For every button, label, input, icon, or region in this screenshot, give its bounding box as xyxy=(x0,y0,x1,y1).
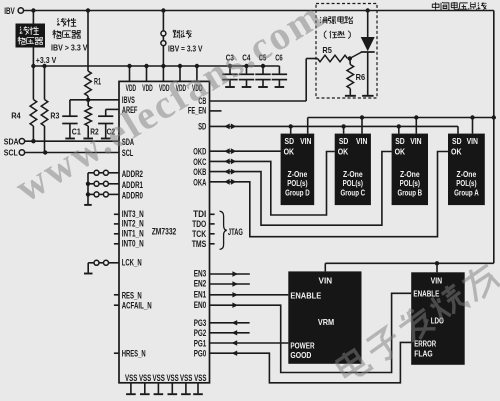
resistor R4 xyxy=(11,66,37,141)
svg-text:OK: OK xyxy=(451,147,462,156)
label TDI xyxy=(193,209,206,219)
label INT3_N xyxy=(122,209,144,219)
label EN0 xyxy=(194,300,207,310)
terminal SDA xyxy=(4,136,25,146)
label ACFAIL_N xyxy=(122,301,152,311)
pin INT1_N stub xyxy=(114,233,119,235)
svg-text:TCK: TCK xyxy=(192,229,207,239)
POL module Z-One Group A xyxy=(448,134,485,206)
label IBV = 3.3 V xyxy=(168,44,203,54)
wire VIN stub group B xyxy=(415,118,417,134)
svg-text:PG3: PG3 xyxy=(194,318,207,328)
svg-text:VIN: VIN xyxy=(356,137,368,146)
svg-text:HRES_N: HRES_N xyxy=(122,349,146,359)
ground (C5) xyxy=(258,86,268,88)
wire IBV bus to linear regulator xyxy=(32,11,34,24)
wire SD stub group C xyxy=(343,126,345,133)
wire SD stub group B xyxy=(398,126,400,133)
capacitor C5 xyxy=(255,52,270,86)
node SD/group C xyxy=(341,124,345,128)
labels VDD x5 xyxy=(126,82,203,93)
node LDO VIN tap xyxy=(435,261,439,265)
node VIN rail / group C xyxy=(360,115,364,119)
JTAG brace xyxy=(220,211,227,249)
jumper ADDR0 xyxy=(88,192,119,197)
label （任选） xyxy=(324,31,350,39)
label OKC xyxy=(193,157,206,167)
svg-text:VIN: VIN xyxy=(300,137,312,146)
label ADDR2 xyxy=(122,169,143,179)
node rail/cap 230 xyxy=(228,64,232,68)
wire PG1 to VRM POWER GOOD xyxy=(210,340,289,345)
node rail/R3 xyxy=(42,64,46,68)
svg-text:VDD: VDD xyxy=(126,82,137,93)
pin INT0_N stub xyxy=(114,243,119,245)
wire PG3 xyxy=(210,320,250,325)
svg-text:EN1: EN1 xyxy=(194,289,207,299)
node VIN rail / group B xyxy=(414,115,418,119)
label FE_EN xyxy=(188,106,206,116)
wire SDA xyxy=(25,140,119,142)
svg-text:R3: R3 xyxy=(50,111,59,121)
pin HRES_N stub xyxy=(114,352,119,354)
svg-text:TDI: TDI xyxy=(193,209,206,219)
jumper ADDR1 xyxy=(88,181,119,186)
node top bus / SCR anode tap xyxy=(366,8,370,12)
pin TCK stub xyxy=(210,233,215,235)
svg-text:IBV = 3.3 V: IBV = 3.3 V xyxy=(168,44,203,54)
svg-text:SD: SD xyxy=(285,137,295,146)
svg-text:ADDR2: ADDR2 xyxy=(122,169,143,179)
watermark www.elecfans.com xyxy=(7,0,330,211)
wire SCL xyxy=(25,152,119,154)
label IBV > 3.3 V xyxy=(51,43,88,53)
bidirectional arrows OKC xyxy=(224,159,236,165)
ground (C3) xyxy=(225,86,235,88)
svg-text:OK: OK xyxy=(395,147,406,156)
svg-text:EN0: EN0 xyxy=(194,300,207,310)
svg-text:Z-One: Z-One xyxy=(457,170,477,179)
node SDA/R4 xyxy=(31,139,35,143)
svg-text:SD: SD xyxy=(339,137,349,146)
wire EN2 xyxy=(210,281,250,286)
wire linear regulator to +3.3V rail xyxy=(32,48,34,67)
wire VIN stub group A xyxy=(472,118,474,134)
svg-text:PG1: PG1 xyxy=(194,339,207,349)
node SCL/R3 xyxy=(43,150,47,154)
wire +3.3V rail xyxy=(33,65,279,67)
node SD/group D xyxy=(289,124,293,128)
svg-text:Group B: Group B xyxy=(398,189,423,198)
label PG3 xyxy=(194,318,207,328)
svg-text:ENABLE: ENABLE xyxy=(413,289,440,298)
label ADDR0 xyxy=(122,191,143,201)
svg-text:R6: R6 xyxy=(356,72,366,82)
label AREF xyxy=(122,105,138,115)
wire EN0 to LDO ENABLE xyxy=(210,293,412,372)
capacitor C3 xyxy=(222,52,237,86)
resistor R2 xyxy=(85,100,99,138)
wire VIN rail (POL groups) xyxy=(308,117,494,119)
svg-text:R1: R1 xyxy=(94,76,101,86)
svg-text:SD: SD xyxy=(198,121,206,131)
svg-text:VSS: VSS xyxy=(194,372,206,383)
svg-text:R4: R4 xyxy=(11,111,21,121)
svg-text:POL(s): POL(s) xyxy=(400,179,421,188)
svg-text:VIN: VIN xyxy=(467,137,479,146)
label PG1 xyxy=(194,339,207,349)
ground (LCK_N) xyxy=(84,273,93,275)
resistor R5 xyxy=(318,45,348,62)
labels VSS x6 xyxy=(125,372,206,383)
label INT2_N xyxy=(122,219,144,229)
node SD/group B xyxy=(397,124,401,128)
svg-text:OKD: OKD xyxy=(193,147,206,157)
svg-text:SD: SD xyxy=(395,137,405,146)
node rail/cap 263 xyxy=(261,64,265,68)
node top bus / linear regulator tap xyxy=(31,8,35,12)
svg-text:IBV: IBV xyxy=(4,6,15,16)
wire LDO VIN stub xyxy=(436,263,438,272)
wire PG2 xyxy=(210,330,250,335)
pin TDO stub xyxy=(210,223,215,225)
pin INT3_N stub xyxy=(114,213,119,215)
svg-text:VSS: VSS xyxy=(180,372,192,383)
capacitor C4 xyxy=(239,52,254,86)
wire AREF (C2 to IC pin) xyxy=(106,108,119,110)
pin VSS1 ground xyxy=(126,383,136,394)
label ZM7332 xyxy=(152,226,177,237)
wire VIN stub group D xyxy=(307,118,309,134)
jumper 跳线 (IBV = 3.3V) xyxy=(161,11,166,67)
pin VDD4 stub xyxy=(178,64,182,82)
wire OKD xyxy=(210,150,281,152)
pin VDD1 stub xyxy=(127,64,131,82)
label TDO xyxy=(192,219,206,229)
label TCK xyxy=(192,229,207,239)
svg-text:Group A: Group A xyxy=(454,189,479,198)
label SDA (pin) xyxy=(122,137,134,147)
svg-text:IBV > 3.3 V: IBV > 3.3 V xyxy=(51,43,88,53)
label SCL (pin) xyxy=(122,148,134,158)
label 消弧电路 xyxy=(320,16,353,24)
svg-text:ACFAIL_N: ACFAIL_N xyxy=(122,301,152,311)
wire PG0 to LDO ERROR FLAG xyxy=(210,342,412,382)
wire CB to arc-suppressor R5 xyxy=(210,59,318,102)
terminal IBV xyxy=(4,6,23,16)
svg-text:POWER: POWER xyxy=(290,341,314,350)
watermark 电子发烧友 xyxy=(334,260,500,382)
POL module Z-One Group D xyxy=(281,134,315,206)
label EN1 xyxy=(194,289,207,299)
svg-text:FLAG: FLAG xyxy=(414,349,433,358)
svg-text:PG0: PG0 xyxy=(194,349,207,359)
svg-text:SCL: SCL xyxy=(4,148,18,158)
node top bus / R1 tap xyxy=(86,8,90,12)
label PG0 xyxy=(194,349,207,359)
label IBVS xyxy=(122,95,135,105)
pin FE_EN stub xyxy=(210,110,222,112)
svg-text:JTAG: JTAG xyxy=(228,227,243,238)
svg-text:VRM: VRM xyxy=(318,318,335,327)
node R5/R6/gate xyxy=(348,56,352,60)
pin TMS stub xyxy=(210,243,215,245)
wire EN1 to VRM ENABLE xyxy=(210,292,289,297)
svg-text:Z-One: Z-One xyxy=(343,170,363,179)
svg-text:VIN: VIN xyxy=(410,137,422,146)
label LCK_N xyxy=(122,257,142,267)
svg-text:TMS: TMS xyxy=(192,239,207,249)
svg-text:PG2: PG2 xyxy=(194,328,207,338)
wire EN3 xyxy=(210,271,250,276)
pin VDD2 stub xyxy=(144,64,148,82)
svg-text:VIN: VIN xyxy=(431,276,443,285)
label CB xyxy=(198,96,206,106)
node VIN rail / group A xyxy=(470,115,474,119)
wire IBVS (junction to IC pin) xyxy=(88,99,119,101)
ground (C4) xyxy=(242,86,252,88)
label JTAG xyxy=(228,227,243,238)
svg-text:VSS: VSS xyxy=(153,372,165,383)
svg-text:INT3_N: INT3_N xyxy=(122,209,144,219)
svg-text:R5: R5 xyxy=(322,45,332,55)
wire ADDR ground chain xyxy=(87,173,89,205)
pin VDD3 stub xyxy=(161,64,165,82)
svg-text:INT0_N: INT0_N xyxy=(122,239,144,249)
linear regulator block (线性稳压器) xyxy=(16,24,46,48)
label +3.3 V xyxy=(36,55,57,65)
svg-text:SDA: SDA xyxy=(4,136,19,146)
label 线性 (annotation) xyxy=(57,18,76,27)
label ADDR1 xyxy=(122,180,143,190)
label INT0_N xyxy=(122,239,144,249)
resistor R6 xyxy=(347,59,365,95)
pin VSS5 ground xyxy=(181,383,191,394)
pin VSS2 ground xyxy=(140,383,150,394)
jumper LCK_N xyxy=(88,260,119,272)
label 稳压器 (annotation) xyxy=(52,30,80,39)
wire right edge vertical (bus to VIN rail and VRM/LDO VIN) xyxy=(493,11,495,264)
svg-text:POL(s): POL(s) xyxy=(287,179,308,188)
pin TDI stub xyxy=(210,213,215,215)
capacitor C1 xyxy=(62,100,88,138)
resistor R3 xyxy=(41,66,59,153)
IC U1 ZM7332 body xyxy=(119,81,210,382)
svg-text:OKA: OKA xyxy=(193,177,206,187)
ground (R2) xyxy=(83,138,93,140)
wire SD bus xyxy=(210,126,459,133)
svg-text:VIN: VIN xyxy=(319,277,333,286)
capacitor C2 xyxy=(98,109,115,137)
resistor R1 xyxy=(85,11,101,100)
ground (SCR) xyxy=(362,95,374,97)
svg-text:VSS: VSS xyxy=(139,372,151,383)
pin ACFAIL_N stub xyxy=(114,304,119,306)
svg-text:OKB: OKB xyxy=(193,167,206,177)
svg-text:Group D: Group D xyxy=(285,189,310,198)
node rail/R4 xyxy=(31,64,35,68)
svg-text:VSS: VSS xyxy=(125,372,137,383)
label OKA xyxy=(193,177,206,187)
svg-text:SD: SD xyxy=(452,137,462,146)
svg-text:ENABLE: ENABLE xyxy=(290,292,321,301)
svg-text:OK: OK xyxy=(284,147,295,156)
wire VIN to VRM/LDO xyxy=(325,263,494,271)
POL module Z-One Group B xyxy=(392,134,428,206)
pin VSS3 ground xyxy=(154,383,164,394)
capacitor C6 xyxy=(272,52,287,86)
POL module Z-One Group C xyxy=(335,134,371,206)
label SD (pin) xyxy=(198,121,206,131)
svg-text:Z-One: Z-One xyxy=(400,170,420,179)
terminal SCL circle xyxy=(19,150,24,155)
arc suppression circuit box (消弧电路 任选) xyxy=(316,4,377,99)
pin VDD5 stub xyxy=(195,64,199,82)
wire OKB xyxy=(210,152,392,226)
node rail/cap 246 xyxy=(244,64,248,68)
pin VSS6 ground xyxy=(193,383,203,394)
svg-text:OK: OK xyxy=(338,147,349,156)
ground (C2) xyxy=(101,138,111,140)
SCR D1 (crowbar) xyxy=(351,11,375,96)
svg-text:ADDR1: ADDR1 xyxy=(122,180,143,190)
label PG2 xyxy=(194,328,207,338)
wire IBV top bus xyxy=(24,10,494,12)
svg-text:TDO: TDO xyxy=(192,219,206,229)
wire VIN stub group C xyxy=(361,118,363,134)
svg-text:RES_N: RES_N xyxy=(122,290,142,300)
label 跳线 xyxy=(173,30,191,38)
jumper ADDR2 xyxy=(88,170,119,175)
svg-text:GOOD: GOOD xyxy=(290,351,311,360)
svg-text:Group C: Group C xyxy=(341,189,366,198)
label HRES_N xyxy=(122,349,146,359)
svg-text:EN3: EN3 xyxy=(194,269,207,279)
node ADDR1 chain xyxy=(86,182,90,186)
bidirectional arrows OKA xyxy=(224,179,236,185)
label TMS xyxy=(192,239,207,249)
svg-text:OKC: OKC xyxy=(193,157,206,167)
label INT1_N xyxy=(122,229,144,239)
node ADDR0 chain xyxy=(86,192,90,196)
svg-text:ZM7332: ZM7332 xyxy=(152,226,177,237)
bidirectional arrows SD xyxy=(224,124,236,130)
label EN2 xyxy=(194,279,207,289)
wire OKC xyxy=(210,152,335,216)
label EN3 xyxy=(194,269,207,279)
node VIN rail / right edge xyxy=(492,115,496,119)
LDO module xyxy=(411,272,465,365)
svg-text:ERROR: ERROR xyxy=(414,339,436,348)
pin VSS4 ground xyxy=(168,383,178,394)
wire SD stub group D xyxy=(290,126,292,133)
svg-text:POL(s): POL(s) xyxy=(456,179,477,188)
terminal SCL xyxy=(4,148,18,158)
svg-text:EN2: EN2 xyxy=(194,279,207,289)
VRM module xyxy=(288,271,361,363)
pin RES_N stub xyxy=(114,294,119,296)
svg-text:POL(s): POL(s) xyxy=(343,179,364,188)
ground (C6) xyxy=(275,86,285,88)
node top bus / jumper tap xyxy=(161,8,165,12)
svg-text:LCK_N: LCK_N xyxy=(122,257,142,267)
label OKB xyxy=(193,167,206,177)
pin INT2_N stub xyxy=(114,223,119,225)
svg-text:ADDR0: ADDR0 xyxy=(122,191,143,201)
ground (ADDR chain) xyxy=(84,204,92,206)
label OKD xyxy=(193,147,206,157)
node R1/IBVS/R2/C1 junction xyxy=(86,98,90,102)
svg-text:INT2_N: INT2_N xyxy=(122,219,144,229)
bidirectional arrows OKD xyxy=(224,148,236,154)
svg-text:VSS: VSS xyxy=(166,372,178,383)
svg-text:Z-One: Z-One xyxy=(288,170,308,179)
wire OKA xyxy=(210,152,449,237)
svg-text:+3.3 V: +3.3 V xyxy=(36,55,57,65)
svg-text:INT1_N: INT1_N xyxy=(122,229,144,239)
ground (C1) xyxy=(65,138,75,140)
label RES_N xyxy=(122,290,142,300)
ground (R6) xyxy=(345,95,356,97)
bidirectional arrows OKB xyxy=(224,169,236,175)
label 中间电压总线 (intermediate voltage bus) xyxy=(432,2,486,11)
